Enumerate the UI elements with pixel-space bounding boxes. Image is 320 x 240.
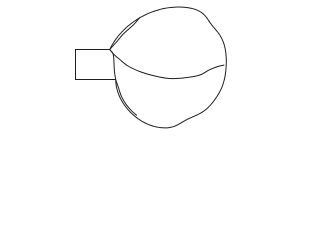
rim accent lower	[116, 80, 137, 116]
ball outline (main sweep)	[110, 7, 227, 128]
equator dip curve	[110, 50, 225, 79]
rim accent upper	[110, 17, 140, 49]
ball left closure (B to A)	[110, 50, 116, 80]
bracket (rectangle)	[76, 50, 116, 80]
